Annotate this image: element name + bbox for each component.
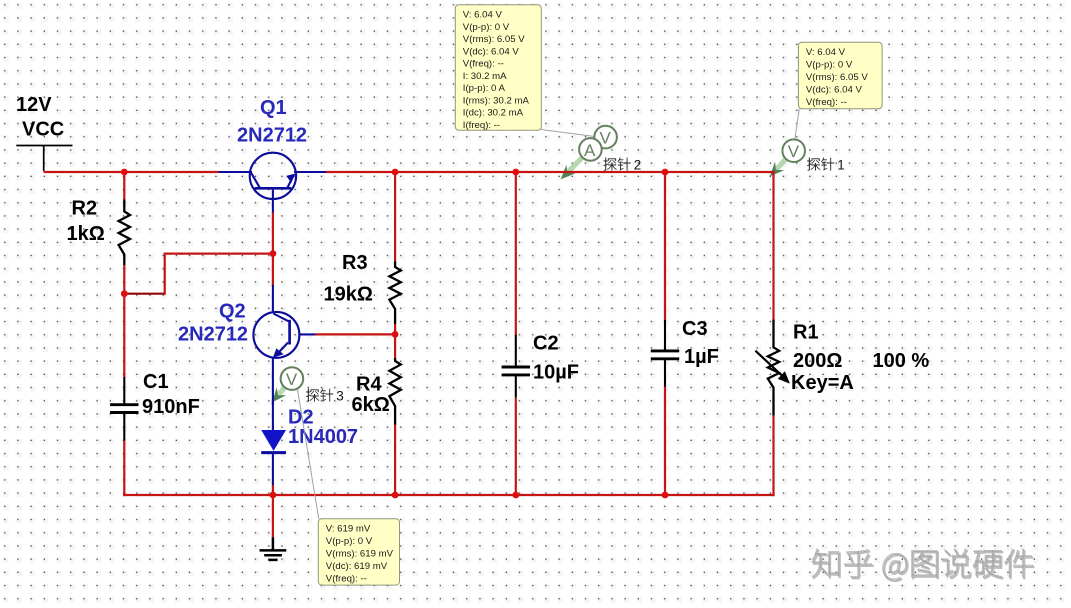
wire feedback step vertical — [164, 253, 166, 295]
wire C2 bottom to rail — [515, 398, 517, 496]
svg-text:V(p-p): 0 V: V(p-p): 0 V — [806, 60, 853, 71]
svg-text:R1: R1 — [793, 322, 819, 344]
svg-text:V(dc): 6.04 V: V(dc): 6.04 V — [463, 46, 520, 57]
wire Q2 base to R3 R4 junction — [315, 333, 396, 335]
svg-text:C3: C3 — [682, 318, 708, 340]
watermark zhihu — [813, 550, 1034, 581]
wire Q2 emitter / D2 anode lead — [272, 400, 274, 431]
wire C2 top lead — [515, 172, 517, 336]
svg-text:V: 6.04 V: V: 6.04 V — [806, 47, 846, 58]
measurement box probe1 — [798, 42, 882, 109]
wire R3 top lead — [394, 172, 396, 262]
svg-text:10µF: 10µF — [533, 362, 579, 384]
probe arrow 2 — [566, 157, 583, 174]
wire Q2 collector lead — [272, 285, 274, 313]
svg-text:V: 6.04 V: V: 6.04 V — [463, 10, 503, 21]
svg-text:V: 619 mV: V: 619 mV — [326, 524, 371, 535]
svg-text:I: 30.2 mA: I: 30.2 mA — [463, 71, 507, 82]
svg-text:Q1: Q1 — [260, 97, 287, 119]
probe 1 (V) — [782, 139, 805, 162]
measurement box probe3 — [318, 519, 399, 585]
svg-text:910nF: 910nF — [142, 396, 200, 418]
svg-text:V(p-p): 0 V: V(p-p): 0 V — [326, 536, 373, 547]
svg-text:100 %: 100 % — [873, 350, 930, 372]
svg-text:C1: C1 — [143, 371, 169, 393]
svg-text:Q2: Q2 — [219, 301, 246, 323]
svg-text:V(p-p): 0 V: V(p-p): 0 V — [463, 22, 510, 33]
svg-text:I(p-p): 0 A: I(p-p): 0 A — [463, 83, 506, 94]
wire C1 bottom to rail — [123, 441, 125, 496]
svg-text:V(freq): --: V(freq): -- — [806, 97, 847, 108]
svg-text:1kΩ: 1kΩ — [67, 223, 105, 245]
resistor R2 — [119, 200, 130, 266]
transistor Q2 2N2712 — [253, 312, 315, 405]
wire R2 top lead — [123, 172, 125, 200]
svg-text:2N2712: 2N2712 — [178, 324, 248, 346]
wire C3 bottom to rail — [664, 387, 666, 496]
svg-text:R3: R3 — [342, 252, 368, 274]
svg-text:I(rms): 30.2 mA: I(rms): 30.2 mA — [463, 95, 530, 106]
label probe3 — [306, 389, 344, 404]
potentiometer R1 wiper arrow — [755, 351, 790, 384]
wire D2 cathode to rail — [272, 485, 274, 496]
svg-text:Key=A: Key=A — [791, 372, 854, 394]
svg-text:V(rms): 619 mV: V(rms): 619 mV — [326, 549, 394, 560]
probe 3 (V) — [281, 367, 304, 390]
power symbol VCC 12V — [16, 146, 72, 172]
probe arrow 1 — [775, 158, 787, 170]
svg-text:2N2712: 2N2712 — [237, 125, 307, 147]
svg-text:V(rms): 6.05 V: V(rms): 6.05 V — [463, 34, 525, 45]
svg-text:6kΩ: 6kΩ — [352, 394, 390, 416]
svg-text:V: V — [788, 142, 800, 161]
wire feedback step horizontal dark — [124, 293, 164, 295]
wire ground stem — [272, 495, 274, 538]
wire R2 bottom to C1 junction — [123, 265, 125, 295]
svg-text:V(dc): 619 mV: V(dc): 619 mV — [326, 561, 388, 572]
svg-text:I(dc): 30.2 mA: I(dc): 30.2 mA — [463, 108, 524, 119]
probe 2 (A+V) — [579, 126, 617, 161]
probe arrow 3 — [277, 387, 285, 397]
measurement box probe2 — [455, 5, 541, 131]
capacitor C2 — [515, 335, 517, 366]
capacitor C1 — [123, 377, 125, 403]
wire Q1 base down — [272, 213, 274, 287]
wire R4 bottom to rail — [394, 425, 396, 496]
svg-text:C2: C2 — [533, 333, 559, 355]
resistor R4 — [389, 358, 400, 425]
wire C1 top lead — [123, 294, 125, 378]
svg-text:V: V — [286, 370, 298, 389]
svg-text:1N4007: 1N4007 — [288, 426, 358, 448]
wire C3 top lead — [664, 172, 666, 321]
svg-text:R2: R2 — [72, 198, 98, 220]
svg-text:A: A — [584, 141, 596, 160]
svg-text:I(freq): --: I(freq): -- — [463, 120, 500, 131]
diode D2 1N4007 — [261, 430, 286, 486]
svg-text:VCC: VCC — [22, 119, 64, 141]
svg-text:3: 3 — [336, 389, 344, 404]
potentiometer R1 — [768, 320, 779, 416]
wire R3 bottom to junction — [394, 324, 396, 359]
svg-text:200Ω: 200Ω — [793, 350, 842, 372]
leader line probe1 box — [795, 109, 800, 141]
svg-text:1µF: 1µF — [684, 346, 719, 368]
svg-text:V(freq): --: V(freq): -- — [326, 574, 367, 585]
svg-text:2: 2 — [634, 158, 642, 173]
svg-text:1: 1 — [837, 158, 845, 173]
ground — [260, 537, 287, 560]
label probe2 — [604, 158, 642, 173]
capacitor C3 — [664, 320, 666, 350]
svg-text:19kΩ: 19kΩ — [324, 284, 373, 306]
label probe1 — [807, 158, 845, 173]
leader line probe2 box — [541, 130, 595, 137]
wire top rail right (Q1 emitter to R1) — [326, 171, 775, 173]
svg-text:V(dc): 6.04 V: V(dc): 6.04 V — [806, 85, 863, 96]
wire R1 bottom to rail — [772, 416, 774, 496]
leader line probe3 box — [298, 390, 319, 520]
svg-text:V(rms): 6.05 V: V(rms): 6.05 V — [806, 72, 868, 83]
wire feedback step to Q1 base column — [165, 253, 274, 255]
wire R1 top lead — [772, 171, 774, 321]
wire bottom rail — [123, 494, 774, 496]
wire top rail left (VCC to Q1 collector) — [44, 171, 219, 173]
svg-text:12V: 12V — [16, 94, 52, 116]
svg-text:V(freq): --: V(freq): -- — [463, 59, 504, 70]
resistor R3 — [389, 262, 400, 325]
svg-text:R4: R4 — [356, 374, 382, 396]
transistor Q1 2N2712 — [219, 153, 327, 213]
